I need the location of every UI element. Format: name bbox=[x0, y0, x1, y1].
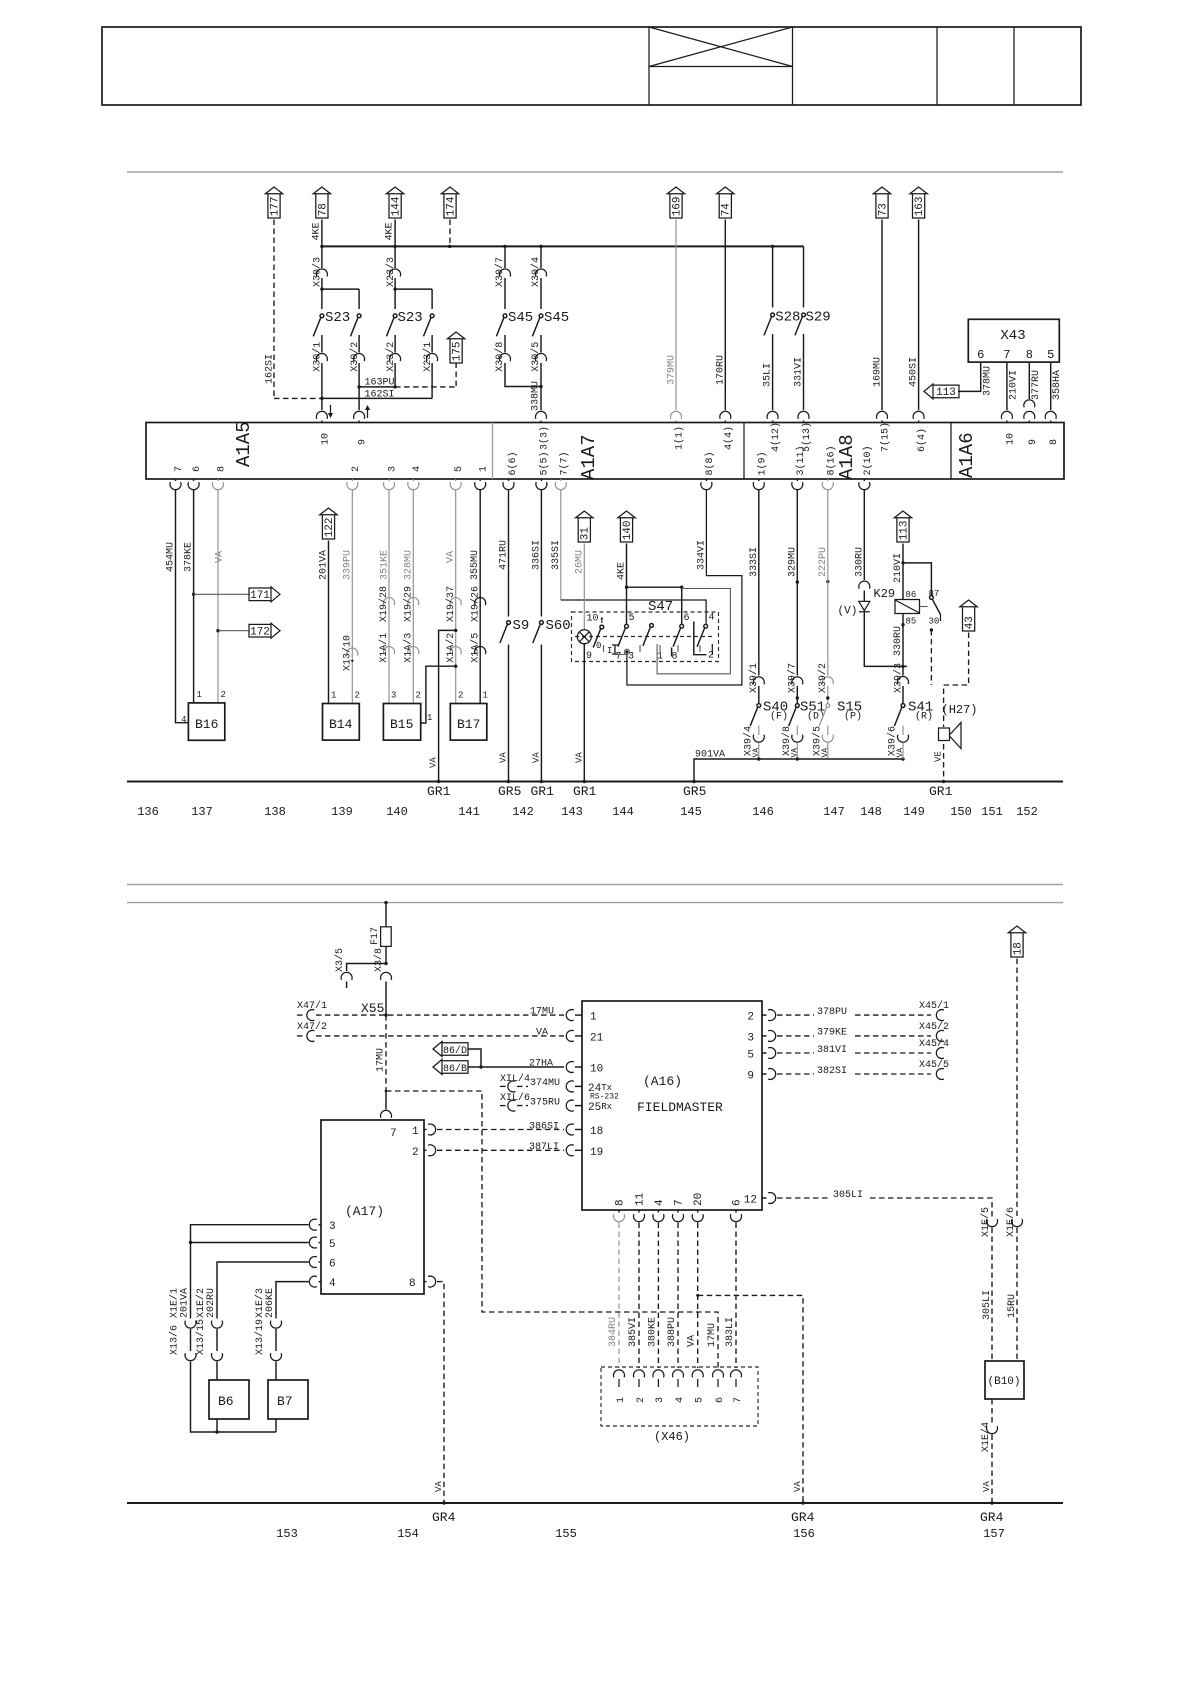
svg-text:163: 163 bbox=[914, 196, 926, 216]
svg-text:(A17): (A17) bbox=[345, 1204, 384, 1219]
svg-text:7: 7 bbox=[616, 652, 622, 663]
svg-text:S23: S23 bbox=[325, 310, 350, 326]
svg-text:6: 6 bbox=[977, 348, 984, 362]
relay contact 30 dashed to horn circuit bbox=[930, 628, 933, 631]
svg-text:3: 3 bbox=[655, 1397, 666, 1403]
svg-text:4: 4 bbox=[181, 715, 186, 725]
A1A8 pin2(10) wire 330RU bbox=[863, 479, 865, 481]
svg-text:202RU: 202RU bbox=[206, 1288, 217, 1318]
svg-text:8(16): 8(16) bbox=[825, 445, 837, 475]
svg-text:5(5): 5(5) bbox=[539, 451, 551, 475]
svg-text:152: 152 bbox=[1016, 805, 1038, 819]
svg-text:X3/8: X3/8 bbox=[373, 948, 385, 972]
wire 379MU from flag 169 to A1A7 1(1) bbox=[675, 220, 677, 411]
connector X1E/3 bbox=[271, 1321, 282, 1329]
flag 113 (left) bbox=[924, 384, 959, 399]
svg-text:A1A6: A1A6 bbox=[956, 432, 978, 478]
svg-text:VA: VA bbox=[446, 551, 457, 563]
svg-text:5: 5 bbox=[747, 1050, 754, 1062]
svg-text:7(7): 7(7) bbox=[558, 451, 570, 475]
S47 pin 10 contact bbox=[601, 617, 603, 619]
svg-text:X1E/1: X1E/1 bbox=[169, 1288, 181, 1318]
svg-text:140: 140 bbox=[386, 805, 408, 819]
svg-text:7: 7 bbox=[174, 466, 185, 472]
wire 330RU from relay 85 down to S41 bbox=[902, 614, 904, 676]
wire 334VI A1A7 pin8(8) to S47 pin 3 bbox=[705, 479, 707, 481]
svg-text:7: 7 bbox=[733, 1397, 744, 1403]
connector X39/2 bbox=[822, 677, 833, 685]
svg-text:GR4: GR4 bbox=[432, 1510, 456, 1525]
svg-text:86/B: 86/B bbox=[443, 1063, 467, 1075]
svg-text:1: 1 bbox=[657, 652, 663, 663]
transducer B15 bbox=[383, 704, 420, 741]
svg-text:4: 4 bbox=[412, 466, 423, 472]
branch to relay contact 87 bbox=[903, 563, 931, 596]
wire 26MU flag31 to S47 lamp bbox=[583, 544, 585, 630]
svg-text:358HA: 358HA bbox=[1052, 370, 1063, 400]
svg-text:31: 31 bbox=[580, 527, 592, 541]
svg-text:S23: S23 bbox=[398, 310, 423, 326]
flag 43 bbox=[960, 600, 977, 631]
svg-text:201VA: 201VA bbox=[180, 1288, 191, 1318]
flag 175 bbox=[447, 332, 464, 363]
svg-text:5: 5 bbox=[695, 1397, 706, 1403]
S47 guide ticks bbox=[603, 645, 605, 652]
svg-text:78: 78 bbox=[317, 203, 329, 216]
arrow up at pin 9 bbox=[365, 405, 370, 418]
svg-text:VA: VA bbox=[574, 752, 584, 763]
bus junction bbox=[503, 245, 506, 248]
svg-text:VA: VA bbox=[896, 748, 905, 758]
branch to X3/5 bbox=[347, 964, 386, 972]
svg-text:380KE: 380KE bbox=[647, 1317, 658, 1347]
svg-text:(R): (R) bbox=[915, 711, 933, 723]
connector X39/3 bbox=[898, 677, 909, 685]
svg-text:377RU: 377RU bbox=[1031, 370, 1042, 400]
svg-text:VA: VA bbox=[429, 757, 439, 768]
A1A8 pin8(16) wire 222PU bbox=[827, 479, 829, 481]
svg-text:4: 4 bbox=[329, 1278, 336, 1290]
svg-text:VA: VA bbox=[752, 748, 761, 758]
svg-text:172: 172 bbox=[250, 627, 270, 639]
svg-text:1: 1 bbox=[412, 1126, 419, 1138]
svg-text:10: 10 bbox=[590, 1063, 603, 1075]
relay actuator link bbox=[920, 606, 928, 608]
title block crossed revision box bbox=[649, 66, 793, 68]
svg-text:17MU: 17MU bbox=[707, 1323, 718, 1347]
title block frame bbox=[102, 27, 1081, 105]
svg-text:3: 3 bbox=[388, 466, 399, 472]
svg-text:137: 137 bbox=[191, 805, 213, 819]
svg-text:GR5: GR5 bbox=[498, 784, 521, 799]
A1A5 pin3 wire 351KE to B15 pin3 bbox=[388, 479, 390, 481]
svg-text:156: 156 bbox=[793, 1527, 815, 1541]
connector X39/7 bbox=[792, 677, 803, 685]
svg-text:388PU: 388PU bbox=[667, 1317, 678, 1347]
svg-text:2: 2 bbox=[708, 651, 714, 662]
wire 450SI from flag 163 to A1A8 6(4) bbox=[918, 220, 920, 411]
svg-text:148: 148 bbox=[860, 805, 882, 819]
A1A5 pin6 wire 378KE to B16 pin1 bbox=[193, 479, 195, 481]
svg-text:S47: S47 bbox=[648, 599, 673, 615]
svg-text:6: 6 bbox=[329, 1259, 336, 1271]
svg-text:143: 143 bbox=[561, 805, 583, 819]
svg-text:VA: VA bbox=[531, 752, 541, 763]
svg-text:B17: B17 bbox=[457, 717, 480, 732]
svg-text:X19/37: X19/37 bbox=[445, 586, 457, 622]
svg-text:1: 1 bbox=[331, 691, 336, 701]
S47 pin 4 contact to pin 2 bbox=[697, 624, 708, 646]
flag 86/B bbox=[433, 1060, 468, 1075]
svg-text:375RU: 375RU bbox=[530, 1097, 560, 1108]
svg-text:113: 113 bbox=[936, 387, 956, 399]
A1A5 pin1 wire 355MU to B17 pin1 bbox=[479, 479, 481, 481]
connector XIL/4 bbox=[508, 1081, 516, 1092]
connector X1A/5 bbox=[475, 647, 486, 655]
X46 pin 4 bbox=[673, 1370, 684, 1378]
svg-text:X19/29: X19/29 bbox=[403, 586, 415, 622]
svg-text:378MU: 378MU bbox=[983, 366, 994, 396]
flag 163 bbox=[910, 187, 927, 218]
switch S40 chain bbox=[758, 491, 760, 676]
S47 lamp bbox=[577, 630, 591, 644]
section 2 rules bbox=[127, 884, 1063, 886]
connector X3/5 bbox=[341, 972, 352, 980]
transducer B14 bbox=[323, 704, 360, 741]
svg-text:X1A/1: X1A/1 bbox=[378, 633, 390, 663]
svg-text:336SI: 336SI bbox=[531, 540, 542, 570]
switch S41 bbox=[894, 704, 905, 726]
connector X19/26 bbox=[475, 598, 486, 606]
svg-text:149: 149 bbox=[903, 805, 925, 819]
svg-text:(D): (D) bbox=[807, 711, 825, 723]
svg-text:163PU: 163PU bbox=[365, 378, 395, 389]
svg-text:454MU: 454MU bbox=[166, 542, 177, 572]
svg-text:7: 7 bbox=[1003, 348, 1010, 362]
svg-text:4KE: 4KE bbox=[385, 222, 396, 240]
svg-text:177: 177 bbox=[269, 196, 281, 216]
svg-text:26MU: 26MU bbox=[574, 550, 585, 574]
svg-text:8: 8 bbox=[409, 1278, 416, 1290]
svg-text:VA: VA bbox=[499, 752, 509, 763]
svg-text:6: 6 bbox=[715, 1397, 726, 1403]
svg-text:VA: VA bbox=[434, 1481, 444, 1492]
svg-text:XIL/6: XIL/6 bbox=[500, 1092, 530, 1104]
connector X39/5 bbox=[822, 735, 833, 743]
control unit A17 bbox=[321, 1120, 424, 1294]
flag 172 (right) bbox=[218, 630, 249, 632]
switch S23 pole X30/2 bbox=[322, 288, 359, 290]
svg-text:5: 5 bbox=[629, 613, 635, 624]
divider A1A7|A1A8 bbox=[743, 423, 745, 480]
B10 dashed to GR4 bbox=[991, 1399, 993, 1424]
svg-text:6: 6 bbox=[732, 1199, 744, 1206]
inline connector on 330RU bbox=[859, 581, 870, 589]
svg-text:169: 169 bbox=[671, 196, 683, 216]
svg-text:10: 10 bbox=[320, 433, 331, 445]
svg-text:2(10): 2(10) bbox=[862, 445, 874, 475]
svg-text:X13/19: X13/19 bbox=[254, 1319, 266, 1355]
svg-text:113: 113 bbox=[898, 520, 910, 540]
svg-text:X47/1: X47/1 bbox=[297, 1000, 327, 1012]
wire 170RU from flag 74 to A1A7 4(4) bbox=[724, 220, 726, 411]
svg-text:382SI: 382SI bbox=[817, 1066, 847, 1077]
svg-text:RS-232: RS-232 bbox=[590, 1093, 619, 1102]
A1A8 pin1(9) wire 333SI bbox=[758, 479, 760, 481]
connector X13/10 bbox=[347, 648, 358, 656]
svg-text:2: 2 bbox=[351, 466, 362, 472]
svg-text:X43: X43 bbox=[1000, 328, 1025, 344]
connector X1A/1 bbox=[384, 647, 395, 655]
svg-text:86: 86 bbox=[906, 590, 917, 600]
wire 4KE flag144 to bus bbox=[394, 220, 396, 247]
svg-text:GR4: GR4 bbox=[980, 1510, 1004, 1525]
terminal A16 FIELDMASTER bbox=[582, 1001, 762, 1210]
svg-text:330RU: 330RU bbox=[893, 626, 904, 656]
svg-text:379KE: 379KE bbox=[817, 1028, 847, 1039]
A1A7 pin7(7) wire 335SI to S47 pin 4 bbox=[560, 479, 562, 481]
svg-text:30: 30 bbox=[929, 617, 940, 627]
X46 pin 6 bbox=[713, 1370, 724, 1378]
A1A5 pin7 wire 454MU to B16 pin4 bbox=[175, 479, 177, 481]
switch S29 bbox=[803, 246, 805, 307]
svg-text:VA: VA bbox=[790, 748, 799, 758]
svg-text:17MU: 17MU bbox=[376, 1048, 387, 1072]
wire 163PU bbox=[359, 386, 395, 388]
connector X1E/5 bbox=[987, 1219, 998, 1227]
A1A7 pin5(5) wire 336SI through switch S60 to GR1 bbox=[540, 479, 542, 481]
svg-text:8: 8 bbox=[1049, 439, 1060, 445]
svg-text:6: 6 bbox=[684, 613, 690, 624]
svg-text:450SI: 450SI bbox=[909, 357, 920, 387]
svg-text:222PU: 222PU bbox=[818, 547, 829, 577]
svg-text:GR4: GR4 bbox=[791, 1510, 815, 1525]
A1A5 pin2 wire 339PU to B14 pin2 bbox=[351, 479, 353, 481]
connector X19/37 bbox=[450, 598, 461, 606]
svg-text:1: 1 bbox=[479, 466, 490, 472]
A17 pin4 wire 206KE to B7 bbox=[276, 1282, 309, 1319]
flag 86/D bbox=[433, 1042, 468, 1057]
dashed wire flag175 bbox=[455, 363, 457, 387]
connector X46 bbox=[601, 1367, 758, 1426]
svg-text:18: 18 bbox=[590, 1126, 603, 1138]
svg-text:X1A/5: X1A/5 bbox=[469, 633, 481, 663]
svg-text:1(1): 1(1) bbox=[674, 426, 686, 450]
svg-text:4(4): 4(4) bbox=[723, 426, 735, 450]
switch S45 pole X30/4-X30/5 bbox=[540, 246, 542, 268]
S47 dashed linkage line bbox=[575, 636, 715, 638]
svg-text:X13/6: X13/6 bbox=[169, 1325, 181, 1355]
svg-text:1(9): 1(9) bbox=[756, 451, 768, 475]
svg-text:174: 174 bbox=[445, 196, 457, 216]
S47 pin 6 contact to pin 8 bbox=[673, 624, 684, 646]
svg-text:5: 5 bbox=[1047, 348, 1054, 362]
svg-text:471RU: 471RU bbox=[499, 540, 510, 570]
S47 middle contact bbox=[643, 624, 654, 646]
wire 901VA common return bbox=[694, 759, 903, 782]
svg-text:(B10): (B10) bbox=[988, 1376, 1021, 1388]
bus junction bbox=[320, 245, 323, 248]
svg-text:1: 1 bbox=[483, 691, 488, 701]
svg-text:X19/26: X19/26 bbox=[469, 586, 481, 622]
svg-text:305LI: 305LI bbox=[982, 1290, 993, 1320]
switch S28 bbox=[772, 246, 774, 307]
svg-text:11: 11 bbox=[635, 1192, 647, 1206]
svg-text:S60: S60 bbox=[546, 618, 571, 634]
svg-text:S45: S45 bbox=[508, 310, 533, 326]
svg-text:201VA: 201VA bbox=[319, 550, 330, 580]
X43 pin 5 wire 358HA bbox=[1050, 362, 1052, 410]
svg-text:73: 73 bbox=[877, 203, 889, 216]
VA branch to ground GR1 bbox=[439, 630, 456, 781]
svg-text:B16: B16 bbox=[195, 717, 218, 732]
X46 pin 1 bbox=[614, 1370, 625, 1378]
X46 pin 5 bbox=[692, 1370, 703, 1378]
svg-text:X55: X55 bbox=[361, 1001, 384, 1016]
svg-text:VA: VA bbox=[821, 748, 830, 758]
svg-text:GR1: GR1 bbox=[427, 784, 451, 799]
ground bus GR4 bbox=[127, 1502, 1063, 1504]
VA branch to GR4 bbox=[696, 1294, 699, 1297]
sensor B7 bbox=[268, 1380, 308, 1419]
section rule bbox=[127, 171, 1063, 173]
svg-text:X45/1: X45/1 bbox=[919, 1000, 949, 1012]
svg-text:86/D: 86/D bbox=[443, 1045, 467, 1057]
svg-text:335SI: 335SI bbox=[551, 540, 562, 570]
svg-text:162SI: 162SI bbox=[365, 390, 395, 401]
dashed wire 15RU flag18 to B10 bbox=[1016, 959, 1018, 1218]
X46 pin 3 bbox=[653, 1370, 664, 1378]
svg-text:VA: VA bbox=[214, 551, 225, 563]
svg-text:1: 1 bbox=[616, 1397, 627, 1403]
connector X13/6 bbox=[185, 1353, 196, 1361]
svg-text:3(11): 3(11) bbox=[795, 445, 807, 475]
svg-text:305LI: 305LI bbox=[833, 1190, 863, 1201]
svg-text:74: 74 bbox=[721, 203, 733, 217]
svg-text:9: 9 bbox=[586, 651, 592, 662]
svg-text:171: 171 bbox=[250, 590, 270, 602]
svg-text:153: 153 bbox=[276, 1527, 298, 1541]
svg-text:X45/2: X45/2 bbox=[919, 1021, 949, 1033]
svg-text:4(12): 4(12) bbox=[770, 422, 782, 452]
svg-text:374MU: 374MU bbox=[530, 1078, 560, 1089]
svg-text:331VI: 331VI bbox=[793, 357, 804, 387]
svg-text:17MU: 17MU bbox=[530, 1007, 554, 1018]
wire 4KE flag78 to bus bbox=[321, 220, 323, 247]
transducer B17 bbox=[450, 704, 487, 741]
svg-text:210VI: 210VI bbox=[893, 553, 904, 583]
connector X1E/6 bbox=[1012, 1219, 1023, 1227]
connector X3/8 bbox=[381, 972, 392, 980]
svg-text:6(4): 6(4) bbox=[916, 428, 928, 452]
svg-text:X19/28: X19/28 bbox=[378, 586, 390, 622]
supply bus wire bbox=[322, 245, 804, 247]
S47 internal net pin1 to supply bbox=[657, 589, 730, 674]
svg-text:384RU: 384RU bbox=[608, 1317, 619, 1347]
svg-text:334VI: 334VI bbox=[696, 540, 707, 570]
svg-text:170RU: 170RU bbox=[715, 355, 726, 385]
svg-text:142: 142 bbox=[512, 805, 534, 819]
svg-text:3: 3 bbox=[329, 1221, 336, 1233]
svg-text:385VI: 385VI bbox=[628, 1317, 639, 1347]
X43 pin 6 wire 378MU to flag 113 bbox=[958, 362, 981, 391]
wire 162SI bbox=[274, 397, 322, 399]
flag 171 (right) bbox=[194, 593, 249, 595]
svg-text:150: 150 bbox=[950, 805, 972, 819]
svg-text:X3/5: X3/5 bbox=[334, 948, 346, 972]
svg-text:1: 1 bbox=[197, 690, 202, 700]
A1A5 pin8 wire VA to B16 pin2 bbox=[217, 479, 219, 481]
svg-text:379MU: 379MU bbox=[666, 355, 677, 385]
svg-text:VA: VA bbox=[793, 1481, 803, 1492]
svg-text:10: 10 bbox=[587, 614, 599, 625]
bus junction bbox=[393, 245, 396, 248]
svg-text:A1A8: A1A8 bbox=[836, 434, 858, 480]
diode V bbox=[859, 601, 870, 611]
svg-text:151: 151 bbox=[981, 805, 1003, 819]
wire 210VI flag113 to relay K29 bbox=[902, 544, 904, 600]
svg-text:19: 19 bbox=[590, 1147, 603, 1159]
svg-text:387LI: 387LI bbox=[529, 1142, 559, 1153]
connector X1E/2 bbox=[212, 1321, 223, 1329]
dashed wire VE horn to GR1 bbox=[943, 744, 945, 782]
svg-text:21: 21 bbox=[590, 1032, 604, 1044]
svg-text:GR1: GR1 bbox=[929, 784, 953, 799]
A17 pin6 wire 202RU to B6 bbox=[217, 1262, 309, 1319]
svg-text:9: 9 bbox=[358, 439, 369, 445]
svg-text:1: 1 bbox=[427, 713, 432, 723]
connector X19/29 bbox=[408, 598, 419, 606]
svg-text:A1A7: A1A7 bbox=[578, 434, 600, 480]
svg-text:6: 6 bbox=[192, 466, 203, 472]
svg-text:7(15): 7(15) bbox=[880, 422, 892, 452]
svg-text:8(8): 8(8) bbox=[704, 451, 716, 475]
svg-text:X45/5: X45/5 bbox=[919, 1059, 949, 1071]
sensor B6 bbox=[209, 1380, 249, 1419]
flag 122 bbox=[320, 508, 337, 539]
4KE branch to S47 pin 6 bbox=[627, 586, 682, 588]
svg-text:(H27): (H27) bbox=[942, 703, 978, 717]
wire to A1A5 pin 9 bbox=[358, 387, 360, 410]
X43 pin 8 wire 377RU bbox=[1028, 362, 1030, 399]
A1A8 pin3(11) wire 329MU bbox=[796, 479, 798, 481]
svg-text:GR1: GR1 bbox=[531, 784, 555, 799]
svg-text:136: 136 bbox=[137, 805, 159, 819]
svg-text:3(3): 3(3) bbox=[539, 426, 551, 450]
svg-text:2: 2 bbox=[636, 1397, 647, 1403]
svg-text:206KE: 206KE bbox=[265, 1288, 276, 1318]
svg-text:1: 1 bbox=[590, 1012, 597, 1024]
svg-text:4KE: 4KE bbox=[617, 562, 628, 580]
X46 pin 2 bbox=[634, 1370, 645, 1378]
svg-text:2: 2 bbox=[221, 690, 226, 700]
svg-text:A1A5: A1A5 bbox=[233, 421, 255, 467]
bus junction bbox=[539, 245, 542, 248]
svg-text:GR5: GR5 bbox=[683, 784, 706, 799]
svg-text:VA: VA bbox=[982, 1481, 992, 1492]
divider A1A8|A1A6 bbox=[950, 423, 952, 480]
svg-text:(X46): (X46) bbox=[654, 1430, 690, 1444]
svg-text:144: 144 bbox=[612, 805, 634, 819]
svg-text:210VI: 210VI bbox=[1009, 370, 1020, 400]
svg-text:20: 20 bbox=[693, 1193, 705, 1206]
transducer B16 bbox=[188, 703, 224, 740]
svg-text:S28: S28 bbox=[775, 310, 800, 326]
B15 pin1 branch to VA wire bbox=[421, 666, 456, 723]
svg-text:3: 3 bbox=[391, 691, 396, 701]
svg-text:15RU: 15RU bbox=[1007, 1294, 1018, 1318]
svg-text:B14: B14 bbox=[329, 717, 353, 732]
